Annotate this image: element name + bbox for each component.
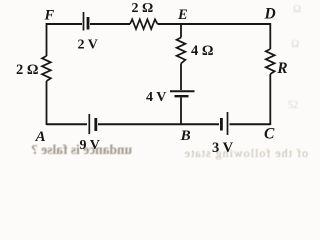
svg-text:2 Ω: 2 Ω	[16, 62, 39, 78]
svg-text:4 V: 4 V	[146, 90, 166, 105]
svg-text:A: A	[35, 129, 46, 145]
svg-text:E: E	[177, 7, 188, 23]
svg-text:B: B	[180, 128, 191, 144]
svg-text:4 Ω: 4 Ω	[191, 43, 214, 59]
svg-text:2 Ω: 2 Ω	[132, 1, 154, 16]
svg-text:3 V: 3 V	[212, 140, 234, 156]
svg-text:R: R	[276, 60, 287, 77]
svg-text:9 V: 9 V	[80, 138, 100, 153]
svg-text:2 V: 2 V	[78, 38, 98, 53]
svg-text:C: C	[264, 126, 275, 143]
svg-text:F: F	[44, 8, 55, 24]
svg-text:D: D	[264, 5, 276, 22]
